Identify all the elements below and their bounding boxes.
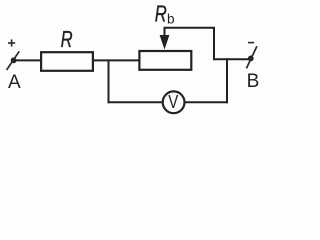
wire R to rheostat (94, 59, 139, 61)
top wire from wiper to right (164, 28, 251, 59)
plus sign at terminal A (8, 39, 15, 46)
svg-text:V: V (168, 92, 178, 112)
rheostat wiper arrow (160, 28, 170, 50)
svg-text:R: R (155, 1, 167, 27)
svg-text:A: A (8, 72, 21, 93)
wire A to R (14, 59, 41, 61)
terminal A (7, 51, 20, 70)
svg-text:B: B (247, 71, 260, 92)
minus sign at terminal B (248, 42, 254, 44)
bottom wire left segment (108, 101, 163, 103)
svg-text:b: b (167, 11, 175, 26)
rheostat Rb body (139, 51, 191, 70)
terminal B (246, 46, 257, 68)
wire up to main line (right) (226, 58, 228, 103)
bottom wire right segment (185, 101, 228, 103)
junction wire down from main line (left) (108, 59, 110, 103)
voltmeter V (163, 91, 185, 113)
resistor R (41, 52, 93, 71)
svg-text:R: R (61, 26, 73, 52)
